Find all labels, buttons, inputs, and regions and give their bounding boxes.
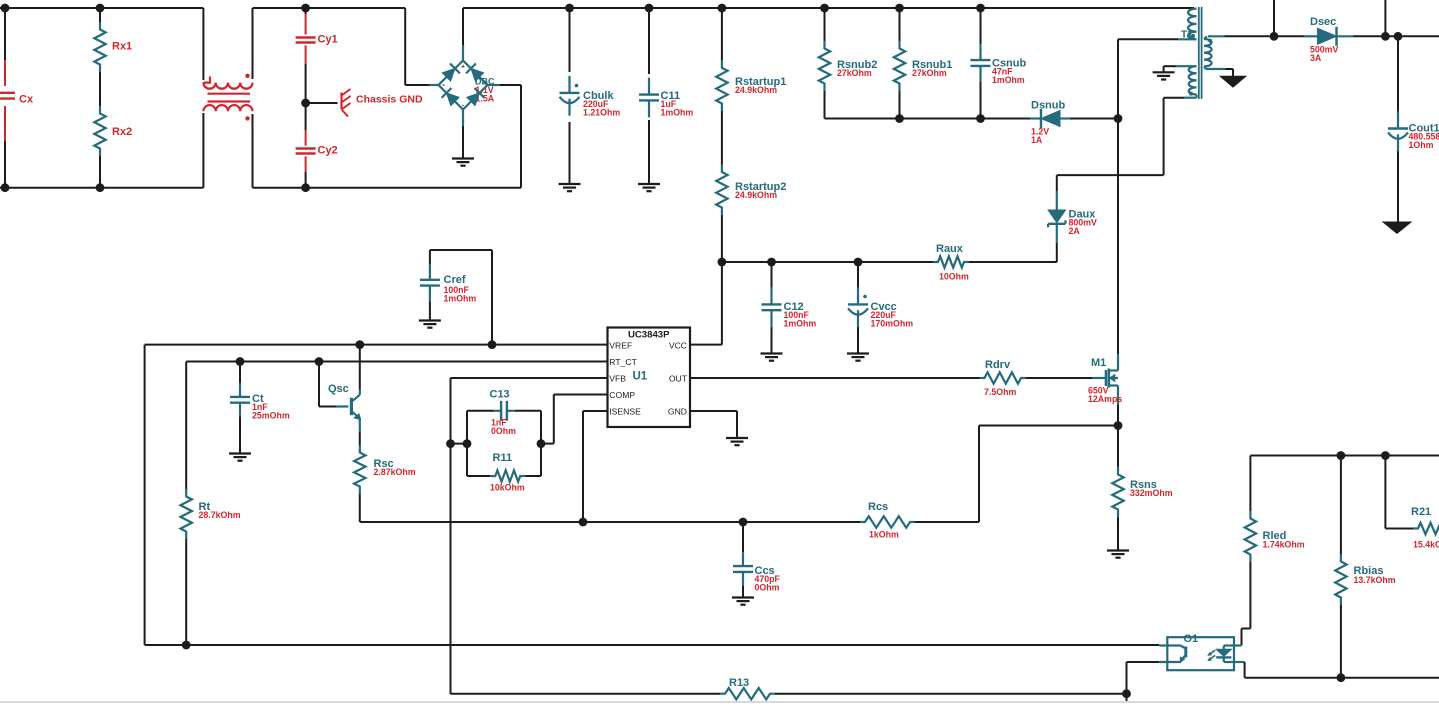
ground Cvcc [847,354,869,361]
wire Cvcc column [857,262,859,354]
svg-text:O1: O1 [1184,633,1199,645]
C13 value 1nF 0Ohm [491,418,516,437]
svg-text:R13: R13 [729,677,749,689]
ground bridge [452,159,474,166]
junction Csnub bottom [976,114,985,123]
svg-text:R11: R11 [493,452,513,464]
svg-text:VCC: VCC [669,340,687,350]
wire bridge AC-left stub [429,84,439,86]
svg-text:Qsc: Qsc [328,383,349,395]
capacitor Cy1 [296,34,338,46]
wire aux winding top to ground [1164,66,1197,72]
U1 pin VREF [609,340,632,350]
junction Cvcc top [854,258,863,267]
DBC value 1.1V 1.5A [476,85,495,104]
wire GND pin [690,411,737,438]
U1 pin COMP [609,390,635,400]
svg-text:1mOhm: 1mOhm [784,319,817,329]
resistor Rcs [860,501,915,528]
diode Dsnub [1030,100,1070,129]
wire Rsnub1 column [899,8,901,119]
wire Rbias column [1340,456,1342,678]
svg-text:28.7kOhm: 28.7kOhm [199,510,241,520]
wire VFB line [451,378,608,694]
wire AC top rail segment 1 [0,7,203,9]
capacitor Cx [0,93,34,106]
wire Rsnub2 column [824,8,826,119]
svg-text:UC3843P: UC3843P [628,330,670,341]
wire Rsc bottom to ISENSE net [359,494,361,522]
svg-text:1mOhm: 1mOhm [444,294,477,304]
resistor Raux [933,243,969,268]
R11 value 10kOhm [490,483,525,493]
svg-text:Dsec: Dsec [1310,16,1336,28]
svg-text:1kOhm: 1kOhm [869,530,899,540]
svg-text:15.4kO: 15.4kO [1413,540,1439,550]
R21 value 15.4kOhm [1413,540,1439,550]
junction C11 top [645,4,654,13]
wire choke left verticals [202,8,204,188]
junction Rstartup top [718,4,727,13]
C11 value 1uF 1mOhm [661,99,694,118]
schematic sheet bottom border [0,701,1439,703]
ground Rsns [1107,551,1129,558]
Rsns value 332mOhm [1130,488,1173,498]
junction Dsec anode [1270,32,1279,41]
svg-text:1A: 1A [1031,135,1043,145]
wire Rled bottom to opto [1242,562,1251,646]
ground Cref [419,321,441,328]
wire bridge AC-left feed [405,8,429,85]
wire top offsheet vertical 2 [1384,0,1386,36]
ground Cbulk [559,184,581,191]
Daux value 800mV 2A [1069,218,1097,237]
junction Rbias bottom [1337,673,1346,682]
diode bridge DBC [439,61,488,110]
svg-text:+: + [461,64,465,71]
svg-text:1Ohm: 1Ohm [1409,140,1434,150]
ground C11 [638,184,660,191]
wire Cout1 column [1397,36,1399,222]
wire R13 line [451,693,1127,695]
resistor Rsc [354,445,394,494]
capacitor C13 [490,389,515,421]
wire VREF return bottom [145,644,1160,646]
ground U1 GND [726,438,748,445]
Cout1 value 480.558uF 1Ohm [1409,132,1439,151]
junction Csnub top [976,4,985,13]
capacitor Cvcc [848,287,897,327]
svg-text:Rx2: Rx2 [112,126,132,138]
optocoupler O1 [1159,633,1234,670]
wire opto right top pin [1234,644,1242,646]
wire Cref link [430,250,492,345]
svg-text:0Ohm: 0Ohm [491,426,516,436]
resistor Rdrv [980,359,1027,384]
Cref value 100nF 1mOhm [444,285,477,304]
junction Rt bottom [182,641,191,650]
resistor Rled [1245,511,1287,562]
svg-text:332mOhm: 332mOhm [1130,488,1173,498]
wire Ct column [239,362,241,454]
junction Cbulk top [565,4,574,13]
ground aux winding [1153,72,1175,79]
svg-text:~: ~ [442,83,446,90]
junction block left [463,439,472,448]
wire secondary return stub [1204,67,1233,77]
ground Ccs [732,598,754,605]
wire Cy column [305,8,307,188]
svg-text:1mOhm: 1mOhm [661,108,694,118]
junction Rsnub1 top [895,4,904,13]
capacitor Ccs [733,552,775,586]
junction ISENSE column [579,518,588,527]
U1 pin VCC [669,340,687,350]
M1 value 650V 12Amps [1088,386,1122,405]
chassis ground symbol [342,89,423,117]
wire VCC pin to rail [690,262,722,345]
svg-text:27kOhm: 27kOhm [912,68,947,78]
svg-text:12Amps: 12Amps [1088,394,1122,404]
wire Ccs column [742,522,744,598]
junction Cref-VREF [488,340,497,349]
junction Cy bottom [301,183,310,192]
Rt value 28.7kOhm [199,510,241,520]
junction Rx bottom [96,183,105,192]
svg-text:25mOhm: 25mOhm [252,411,290,421]
power ground secondary return [1220,76,1246,87]
U1 pin RT_CT [609,357,637,367]
svg-text:10Ohm: 10Ohm [939,272,969,282]
resistor Rt [181,489,211,539]
wire DC top rail [463,7,1194,9]
Rcs value 1kOhm [869,530,899,540]
wire Csnub column [980,8,982,119]
Rled value 1.74kOhm [1263,540,1305,550]
wire AC bottom rail segment 1 [0,187,203,189]
wire bridge AC-right [488,85,522,188]
svg-text:-: - [462,103,464,110]
Ccs value 470pF 0Ohm [755,574,781,593]
resistor Rx1 [94,22,132,72]
resistor Rsns [1112,467,1157,517]
U1 pin OUT [669,373,688,383]
junction R21 top [1381,451,1390,460]
capacitor Cout1 [1388,112,1439,152]
Raux value 10Ohm [939,272,969,282]
ground C12 [761,354,783,361]
wire Qsc emitter to Rsc [359,432,361,445]
ground Ct [229,454,251,461]
capacitor Cy2 [296,145,338,157]
wire AC bottom rail segment 2 [253,187,522,189]
wire choke right verticals [252,8,254,188]
svg-text:Chassis GND: Chassis GND [356,94,423,106]
wire bridge negative to ground [462,110,464,159]
junction Vout-offsheet [1381,32,1390,41]
resistor R11 [490,452,525,482]
svg-text:24.9kOhm: 24.9kOhm [735,85,777,95]
Rdrv value 7.5Ohm [984,387,1016,397]
Dsnub value 1.2V 1A [1031,127,1049,146]
Rsc value 2.87kOhm [374,467,416,477]
junction top-left [1,4,10,13]
svg-text:27kOhm: 27kOhm [837,68,872,78]
svg-text:U1: U1 [633,371,648,383]
wire Daux bottom to Vcc rail [1056,243,1058,262]
wire Qsc base net [319,362,336,407]
Ct value 1nF 25mOhm [252,402,290,421]
svg-text:Cy2: Cy2 [318,145,338,157]
svg-text:Rcs: Rcs [868,501,888,513]
resistor R13 [720,677,775,699]
Rbias value 13.7kOhm [1354,575,1396,585]
resistor Rstartup1 [716,60,786,111]
junction M1 source [1114,421,1123,430]
wire AC top rail segment 2 [253,7,406,9]
wire M1 source [1117,405,1119,467]
wire output bottom rail [1245,677,1439,679]
capacitor Ct [230,383,264,417]
Rsnub1 value 27kOhm [912,68,947,78]
junction Qsc base net [315,357,324,366]
Cvcc value 220uF 170mOhm [871,310,914,329]
wire aux winding bottom [1164,95,1197,176]
junction Rx top [96,4,105,13]
U1 pin VFB [609,373,626,383]
junction opto-R13 [1122,689,1131,698]
capacitor C12 [762,287,804,327]
svg-text:0Ohm: 0Ohm [755,583,780,593]
svg-text:OUT: OUT [669,373,688,383]
wire output section top rail [1250,456,1439,512]
svg-text:GND: GND [668,406,687,416]
junction Rsnub2 top [820,4,829,13]
Rstartup2 value 24.9kOhm [735,190,777,200]
wire Rsns bottom [1117,517,1119,551]
diode Daux [1048,191,1096,243]
svg-text:R21: R21 [1411,506,1431,518]
wire Isense rail [360,426,1118,523]
svg-text:Rdrv: Rdrv [985,359,1011,371]
transistor Qsc [328,383,361,432]
svg-text:24.9kOhm: 24.9kOhm [735,190,777,200]
U1 pin GND [668,406,687,416]
svg-text:COMP: COMP [609,390,635,400]
junction Qsc collector [355,340,364,349]
junction Rsnub1 bottom [895,114,904,123]
junction snubber-drain [1114,114,1123,123]
capacitor Cbulk [560,76,615,116]
junction Ccs top [739,518,748,527]
wire M1 drain [1117,119,1119,355]
wire opto left bottom net [1127,662,1160,701]
wire bridge top feed [462,8,464,61]
wire C12 column [771,262,773,354]
junction C12 top [767,258,776,267]
wire RT_CT line [186,362,607,490]
wire opto right bottom pin [1234,662,1245,678]
svg-text:VFB: VFB [609,373,626,383]
op-amp U1 UC3843P body [608,328,691,428]
transistor M1 MOSFET [1091,354,1118,405]
junction Ct top [236,357,245,366]
wire chassis stub [306,102,338,104]
svg-text:Rx1: Rx1 [112,41,132,53]
capacitor Cref [420,264,466,302]
wire Rstartup column [721,8,723,262]
Cbulk value 220uF 1.21Ohm [583,99,620,118]
wire Vcc rail [722,261,1057,263]
resistor Rsnub1 [894,41,953,91]
wire Rt bottom [185,539,187,645]
svg-text:Cy1: Cy1 [318,34,338,46]
svg-text:7.5Ohm: 7.5Ohm [984,387,1016,397]
transformer T1 [1181,7,1212,99]
svg-text:Raux: Raux [936,243,964,255]
wire R21 branch [1385,456,1413,529]
junction Cy top [301,4,310,13]
wire Cx left vertical [4,8,6,188]
wire primary bottom to drain column [1118,39,1197,118]
wire ISENSE line [583,411,608,522]
svg-text:M1: M1 [1091,357,1106,369]
svg-text:3A: 3A [1310,53,1322,63]
svg-text:2A: 2A [1069,226,1081,236]
wire Rx column [99,8,101,188]
wire C13-R11 block frame [451,411,542,476]
junction VFB-block [446,439,455,448]
svg-text:1.74kOhm: 1.74kOhm [1263,540,1305,550]
U1 pin ISENSE [609,406,641,416]
Rsnub2 value 27kOhm [837,68,872,78]
svg-text:Cx: Cx [19,94,34,106]
power ground Cout1 [1383,222,1411,233]
wire Qsc collector [359,345,361,389]
svg-text:VREF: VREF [609,340,632,350]
wire OUT line [690,377,1092,379]
junction Cout1 top [1394,32,1403,41]
junction Cy middle [301,99,310,108]
wire snubber bottom rail [825,118,1119,120]
svg-text:1mOhm: 1mOhm [992,75,1025,85]
wire VREF line [145,345,608,645]
wire top offsheet vertical 1 [1273,0,1275,36]
diode Dsec [1304,16,1353,46]
junction Rbias top [1337,451,1346,460]
wire secondary top line [1204,36,1439,39]
capacitor C11 [639,78,680,118]
junction bottom-left [1,183,10,192]
svg-text:Dsnub: Dsnub [1031,100,1066,112]
resistor R21 [1411,506,1439,534]
wire aux to Daux [1057,175,1164,191]
Dsec value 500mV 3A [1310,45,1338,64]
capacitor Csnub [971,44,1027,82]
svg-text:C13: C13 [490,389,510,401]
svg-text:ISENSE: ISENSE [609,406,641,416]
svg-text:RT_CT: RT_CT [609,357,637,367]
resistor Rsnub2 [819,41,878,91]
diode bridge DBC label [475,77,495,87]
Rstartup1 value 24.9kOhm [735,85,777,95]
junction Vcc-Rstartup [718,258,727,267]
svg-text:170mOhm: 170mOhm [871,319,914,329]
wire Cbulk column [569,8,571,183]
svg-text:10kOhm: 10kOhm [490,483,525,493]
resistor Rbias body [1335,554,1383,605]
junction block right [537,439,546,448]
svg-text:2.87kOhm: 2.87kOhm [374,467,416,477]
svg-text:1.21Ohm: 1.21Ohm [583,108,620,118]
resistor Rstartup2 [716,165,786,216]
inductor common-mode choke L1 [203,74,252,121]
Csnub value 47nF 1mOhm [992,67,1025,86]
wire C11 column [648,8,650,183]
C12 value 100nF 1mOhm [784,310,817,329]
wire COMP line [541,395,608,444]
resistor Rx2 [94,106,132,156]
svg-text:13.7kOhm: 13.7kOhm [1354,575,1396,585]
